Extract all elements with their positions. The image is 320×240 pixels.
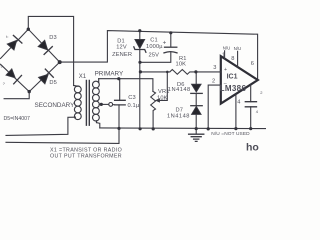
svg-text:12V: 12V — [116, 45, 127, 51]
svg-text:D5=IN4007: D5=IN4007 — [4, 116, 31, 122]
svg-text:D1: D1 — [117, 38, 125, 44]
svg-text:t:: t: — [6, 34, 8, 39]
svg-text:PRIMARY: PRIMARY — [95, 71, 124, 78]
svg-text:X1 =TRANSIST OR RADIO: X1 =TRANSIST OR RADIO — [50, 148, 122, 154]
svg-text:ho: ho — [246, 141, 259, 153]
svg-text:X1: X1 — [79, 74, 87, 80]
svg-text:3: 3 — [213, 65, 216, 71]
svg-text:+: + — [163, 39, 167, 46]
svg-text:8: 8 — [231, 56, 234, 62]
svg-text:+: + — [224, 67, 227, 73]
svg-text:N/U =NOT USED: N/U =NOT USED — [211, 131, 250, 137]
svg-text:N/U: N/U — [223, 46, 231, 51]
svg-text:4: 4 — [256, 109, 259, 114]
svg-text:IC1: IC1 — [227, 73, 238, 80]
svg-text:C3: C3 — [128, 95, 136, 101]
svg-text:1N4148: 1N4148 — [167, 114, 190, 120]
svg-text:N/U: N/U — [234, 46, 242, 51]
svg-text:10K: 10K — [157, 95, 168, 101]
svg-text:1: 1 — [222, 52, 225, 58]
svg-text:?: ? — [3, 81, 6, 86]
svg-text:OUT PUT TRANSFORMER: OUT PUT TRANSFORMER — [50, 154, 122, 160]
svg-text:6: 6 — [251, 61, 254, 67]
svg-text:D3: D3 — [49, 35, 57, 41]
svg-text:25V: 25V — [149, 52, 160, 58]
svg-text:2: 2 — [212, 78, 215, 84]
svg-text:ZENER: ZENER — [112, 52, 132, 58]
svg-text:1000µ: 1000µ — [146, 44, 163, 50]
svg-text:D7: D7 — [176, 108, 184, 114]
svg-text:D5: D5 — [49, 80, 57, 86]
svg-text:LM386: LM386 — [220, 84, 247, 93]
svg-text:0.1µ: 0.1µ — [128, 103, 140, 109]
svg-text:1N4148: 1N4148 — [168, 87, 191, 93]
svg-text:4: 4 — [237, 99, 240, 105]
svg-text:SECONDARY: SECONDARY — [35, 102, 76, 109]
svg-text:2: 2 — [260, 90, 263, 95]
svg-text:10K: 10K — [176, 61, 187, 67]
svg-text:C1: C1 — [150, 38, 158, 44]
